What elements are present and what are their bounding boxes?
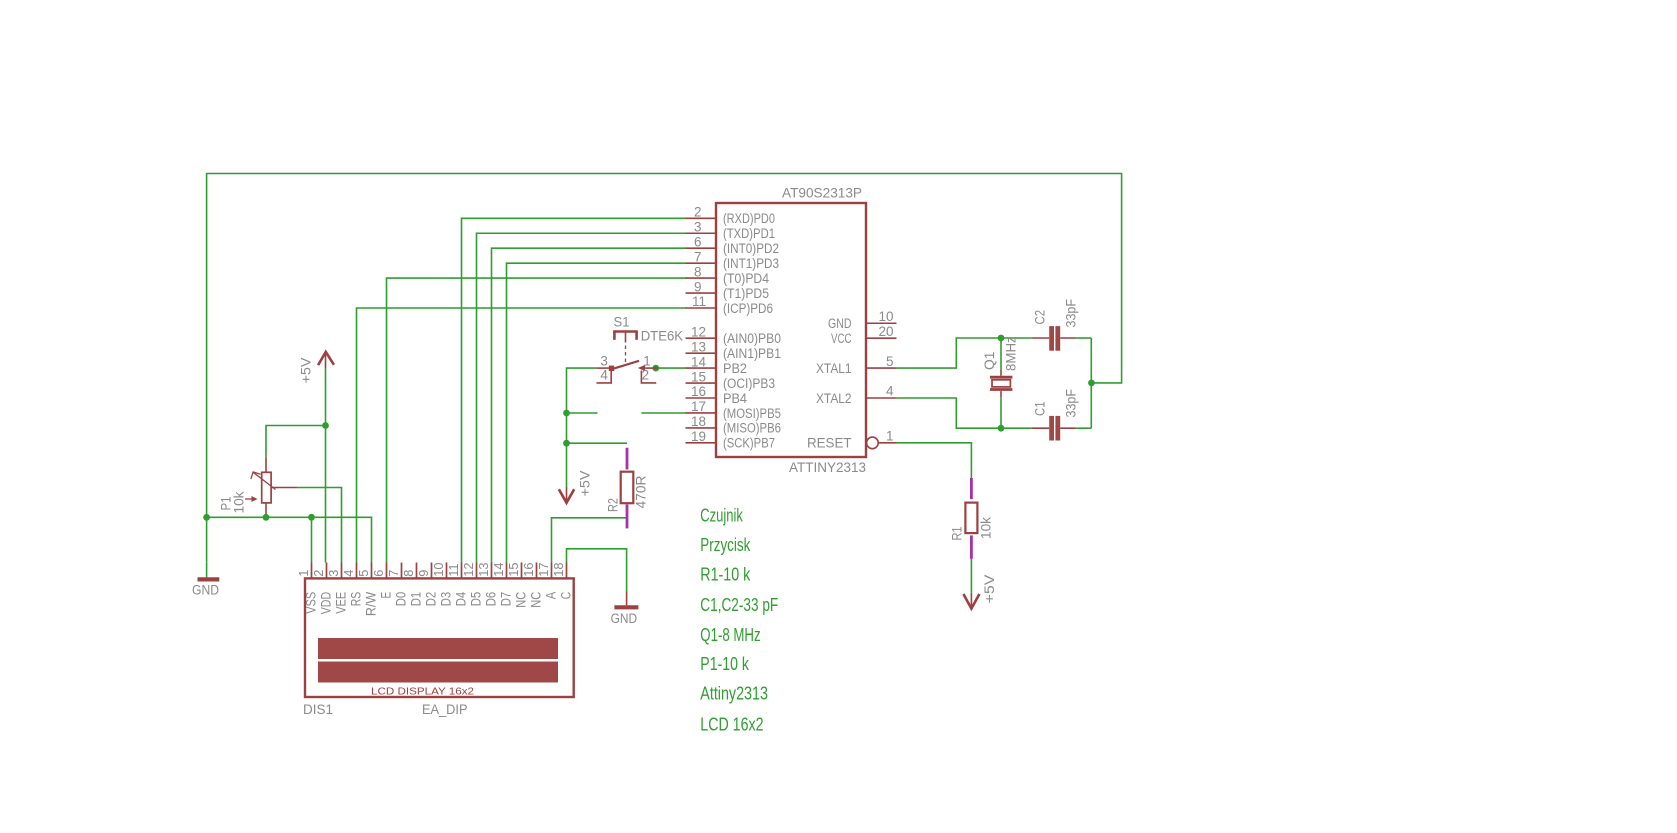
svg-text:D0: D0 [393, 592, 408, 607]
svg-text:14: 14 [691, 354, 707, 369]
pin 19 (SCK)PB7 lead + number + name [686, 442, 716, 444]
crystal Q1 8MHz [1000, 370, 1002, 376]
wire IC pin 7 to LCD connector x=506.5 [507, 263, 687, 562]
LCD pin 11 D4 lead + number + name [461, 563, 463, 579]
LCD pin 9 D2 lead + number + name [431, 563, 433, 579]
svg-text:2: 2 [694, 205, 702, 220]
svg-text:DTE6K: DTE6K [641, 329, 683, 344]
svg-text:33pF: 33pF [1064, 299, 1079, 328]
svg-text:19: 19 [691, 429, 706, 444]
svg-text:1: 1 [643, 354, 651, 369]
wire row17 left segment [567, 412, 598, 414]
LCD pin 1 VSS lead + number + name [311, 563, 313, 579]
pin 16 PB4 lead + number + name [686, 397, 716, 399]
svg-text:20: 20 [878, 324, 893, 339]
svg-text:3: 3 [326, 570, 341, 577]
svg-text:D6: D6 [483, 592, 498, 607]
LCD pin 7 D0 lead + number + name [401, 563, 403, 579]
svg-text:C1: C1 [1033, 402, 1048, 417]
wire Q1 top lead green [1000, 338, 1002, 370]
svg-text:10: 10 [878, 309, 893, 324]
svg-text:+5V: +5V [982, 575, 997, 604]
junction GND/VSS dots [203, 514, 210, 521]
svg-text:GND: GND [192, 583, 219, 598]
svg-text:17: 17 [691, 399, 706, 414]
svg-text:XTAL1: XTAL1 [816, 361, 852, 376]
P1 wiper lead [271, 487, 297, 489]
LCD pin 18 C lead + number + name [566, 563, 568, 579]
wire XTAL1 (pin5) to crystal top node [897, 338, 1002, 368]
svg-text:10k: 10k [979, 517, 994, 539]
svg-text:4: 4 [886, 384, 894, 399]
svg-text:VSS: VSS [303, 592, 318, 614]
pin 17 (MOSI)PB5 lead + number + name [686, 412, 716, 414]
wire PB2 (pin14) to switch S1 pin1 [657, 367, 687, 369]
LCD pin 2 VDD lead + number + name [326, 563, 328, 579]
svg-text:R2: R2 [606, 498, 621, 512]
wire IC pin 11 to LCD connector x=356.5 [357, 308, 687, 563]
pin 13 (AIN1)PB1 lead + number + name [686, 352, 716, 354]
pin 9 (T1)PD5 lead + number + name [686, 292, 716, 294]
svg-text:2: 2 [311, 570, 326, 577]
svg-text:11: 11 [446, 564, 461, 577]
svg-text:(AIN1)PB1: (AIN1)PB1 [723, 346, 781, 361]
ground symbol left [206, 576, 208, 579]
svg-text:GND: GND [611, 611, 638, 626]
wire caps right vertical [1090, 338, 1092, 428]
svg-text:13: 13 [476, 563, 491, 577]
LCD pin 6 E lead + number + name [386, 563, 388, 579]
junction at S1 pin1 [652, 365, 659, 372]
svg-text:5: 5 [886, 354, 894, 369]
svg-text:PB4: PB4 [723, 391, 747, 406]
LCD pin 4 RS lead + number + name [356, 563, 358, 579]
wire IC pin 2 to LCD connector x=461.5 [462, 218, 687, 562]
svg-text:Q1: Q1 [982, 352, 997, 370]
svg-text:4: 4 [341, 570, 356, 577]
junction switch net / R2 [563, 440, 570, 447]
svg-text:VCC: VCC [831, 331, 852, 346]
wire R2 bottom to LCD pin17 (A) [552, 518, 628, 563]
svg-text:6: 6 [371, 570, 386, 577]
wire row17 right segment to IC pin17 [641, 412, 686, 414]
switch S1 pin4 lead [597, 371, 612, 383]
svg-text:(AIN0)PB0: (AIN0)PB0 [723, 331, 781, 346]
svg-text:DIS1: DIS1 [303, 702, 333, 717]
svg-text:16: 16 [521, 563, 536, 577]
op IC U1 AT90S2313P/ATTINY2313 body [716, 203, 866, 457]
svg-text:(INT0)PD2: (INT0)PD2 [723, 241, 779, 256]
pin 3 (TXD)PD1 lead + number + name [686, 232, 716, 234]
junction switch net / row17 [563, 410, 570, 417]
svg-text:18: 18 [551, 563, 566, 577]
LCD pin 10 D3 lead + number + name [446, 563, 448, 579]
wire P1 wiper to VEE (LCD pin3) [297, 488, 342, 563]
svg-text:(TXD)PD1: (TXD)PD1 [723, 226, 775, 241]
wire switch S1 pin3 to left vertical [567, 368, 597, 487]
pin 11 (ICP)PD6 lead + number + name [686, 307, 716, 309]
svg-text:NC: NC [513, 592, 528, 608]
svg-text:14: 14 [491, 563, 506, 577]
svg-text:RS: RS [348, 592, 363, 607]
svg-text:11: 11 [692, 294, 706, 309]
svg-text:E: E [378, 592, 393, 599]
capacitor C1 33pF [1032, 427, 1049, 429]
junction XTAL1 node [998, 335, 1005, 342]
pin 12 (AIN0)PB0 lead + number + name [686, 337, 716, 339]
capacitor C2 33pF [1032, 337, 1049, 339]
svg-text:(T0)PD4: (T0)PD4 [723, 271, 769, 286]
pin 2 (RXD)PD0 lead + number + name [686, 217, 716, 219]
svg-text:18: 18 [691, 414, 706, 429]
svg-text:8: 8 [401, 570, 416, 577]
pin 6 (INT0)PD2 lead + number + name [686, 247, 716, 249]
junction +5V/VDD [322, 422, 329, 429]
switch S1 pin3 lead [596, 367, 609, 369]
pin 14 PB2 lead + number + name [686, 367, 716, 369]
resistor R1 10k [970, 478, 973, 499]
switch S1 pin2 lead [641, 371, 656, 383]
svg-text:12: 12 [461, 563, 476, 577]
wire C2 right to right vertical [1076, 337, 1091, 339]
wire Q1 bottom lead green [1000, 397, 1002, 428]
LCD pin 15 NC lead + number + name [521, 563, 523, 579]
LCD pin 12 D5 lead + number + name [476, 563, 478, 579]
svg-text:(OCI)PB3: (OCI)PB3 [723, 376, 775, 391]
svg-text:13: 13 [691, 339, 706, 354]
wire R1 bottom to +5V arrow [970, 559, 972, 593]
svg-text:D2: D2 [423, 592, 438, 607]
svg-text:(MISO)PB6: (MISO)PB6 [723, 421, 781, 436]
svg-text:PB2: PB2 [723, 361, 747, 376]
pin 7 (INT1)PD3 lead + number + name [686, 262, 716, 264]
svg-text:A: A [543, 592, 558, 600]
switch S1 contacts [609, 366, 614, 371]
svg-text:(RXD)PD0: (RXD)PD0 [723, 211, 775, 226]
svg-text:(INT1)PD3: (INT1)PD3 [723, 256, 779, 271]
svg-text:XTAL2: XTAL2 [816, 391, 852, 406]
svg-text:GND: GND [828, 316, 852, 331]
svg-text:8: 8 [694, 264, 702, 279]
LCD pin 8 D1 lead + number + name [416, 563, 418, 579]
svg-text:9: 9 [694, 279, 702, 294]
svg-text:7: 7 [694, 249, 702, 264]
switch S1 DTE6K button symbol [613, 330, 638, 333]
LCD pin 14 D7 lead + number + name [506, 563, 508, 579]
svg-text:+5V: +5V [299, 358, 314, 384]
svg-text:VDD: VDD [318, 592, 333, 615]
svg-text:D7: D7 [498, 592, 513, 607]
+5V supply arrow (down) at R1 [970, 593, 972, 607]
svg-text:16: 16 [691, 384, 706, 399]
svg-text:7: 7 [386, 570, 401, 577]
wire GND horizontal to VSS and R/W [207, 517, 372, 562]
svg-text:15: 15 [506, 563, 521, 577]
wire P1 bottom to GND [265, 514, 267, 517]
junction caps-GND [1088, 380, 1095, 387]
svg-text:AT90S2313P: AT90S2313P [782, 186, 862, 201]
svg-text:1: 1 [886, 429, 894, 444]
svg-text:C: C [558, 592, 573, 600]
svg-text:3: 3 [600, 354, 608, 369]
switch S1 pin1 lead [645, 367, 657, 369]
resistor P1 potentiometer body [265, 458, 267, 472]
wire crystal top node to C2 [1001, 337, 1032, 339]
+5V supply arrow (down) at switch net [566, 487, 568, 501]
pin 8 (T0)PD4 lead + number + name [686, 277, 716, 279]
LCD pin 16 NC lead + number + name [536, 563, 538, 579]
pin 5 XTAL1 lead + number + name [866, 367, 897, 369]
svg-text:1: 1 [296, 570, 311, 577]
wire LCD pin18 (C) to GND symbol [567, 549, 627, 592]
resistor R2 470R [626, 448, 629, 470]
pin 1 RESET lead + number + name [867, 437, 879, 449]
P1 wiper arrow [254, 473, 276, 490]
svg-text:12: 12 [691, 324, 706, 339]
P1 adjust arrow [245, 498, 255, 500]
svg-text:Attiny2313: Attiny2313 [700, 683, 768, 703]
svg-text:(ICP)PD6: (ICP)PD6 [723, 301, 773, 316]
svg-text:9: 9 [416, 570, 431, 577]
pin 4 XTAL2 lead + number + name [866, 397, 897, 399]
pin 18 (MISO)PB6 lead + number + name [686, 427, 716, 429]
wire IC pin 3 to LCD connector x=476.5 [477, 233, 687, 562]
svg-text:ATTINY2313: ATTINY2313 [789, 460, 866, 475]
wire GND net: left rail, top rail, right drop to caps junction [207, 174, 1122, 563]
svg-text:D4: D4 [453, 591, 468, 606]
wire +5V net: arrow stem to VDD (LCD pin2) [325, 368, 327, 562]
svg-text:17: 17 [536, 563, 551, 577]
wire RESET (pin1) to R1 [897, 443, 972, 478]
svg-text:2: 2 [642, 367, 650, 382]
svg-text:(T1)PD5: (T1)PD5 [723, 286, 769, 301]
LCD pin 3 VEE lead + number + name [341, 563, 343, 579]
LCD display bar row 2 [318, 662, 558, 683]
svg-text:(MOSI)PB5: (MOSI)PB5 [723, 406, 781, 421]
svg-text:(SCK)PB7: (SCK)PB7 [723, 436, 775, 451]
LCD display bar row 1 [318, 638, 558, 659]
svg-text:S1: S1 [614, 315, 630, 330]
svg-text:3: 3 [694, 219, 702, 234]
svg-text:5: 5 [356, 570, 371, 577]
svg-text:8MHz: 8MHz [1004, 336, 1019, 371]
+5V supply arrow (up) near P1 [325, 353, 327, 369]
svg-text:10k: 10k [232, 491, 247, 513]
wire left GND stub (green part) [206, 562, 208, 577]
wire +5V branch to P1 top [266, 426, 326, 459]
junction XTAL2 node [998, 425, 1005, 432]
svg-text:D5: D5 [468, 592, 483, 607]
switch S1 actuator dashed link [625, 346, 627, 363]
LCD pin 17 A lead + number + name [551, 563, 553, 579]
svg-text:D1: D1 [408, 592, 423, 607]
svg-text:LCD DISPLAY 16x2: LCD DISPLAY 16x2 [371, 685, 474, 697]
svg-text:6: 6 [694, 234, 702, 249]
ground symbol right of LCD [626, 592, 628, 606]
svg-text:R1-10 k: R1-10 k [700, 564, 751, 584]
svg-text:470R: 470R [634, 475, 649, 508]
svg-text:Przycisk: Przycisk [700, 535, 751, 555]
svg-text:4: 4 [600, 367, 608, 382]
svg-text:Q1-8 MHz: Q1-8 MHz [700, 625, 760, 645]
wire VSS riser LCD pin1 [311, 517, 313, 562]
svg-text:15: 15 [691, 369, 706, 384]
svg-text:VEE: VEE [333, 592, 348, 614]
svg-text:D3: D3 [438, 592, 453, 607]
wire crystal bottom node to C1 [1001, 427, 1032, 429]
svg-text:R/W: R/W [363, 592, 378, 617]
wire R2 top to switch net [567, 442, 628, 444]
svg-text:NC: NC [528, 592, 543, 608]
wire IC pin 8 to LCD connector x=386.5 [387, 278, 687, 562]
wire C1 right to right vertical [1076, 427, 1091, 429]
svg-text:P1-10 k: P1-10 k [700, 654, 749, 674]
svg-text:33pF: 33pF [1064, 389, 1079, 418]
LCD display DIS1 EA_DIP body [305, 578, 574, 697]
wire IC pin 6 to LCD connector x=491.5 [492, 248, 687, 562]
pin 10 GND lead + number + name [866, 322, 897, 324]
LCD pin 5 R/W lead + number + name [371, 563, 373, 579]
svg-text:10: 10 [431, 563, 446, 577]
svg-text:+5V: +5V [578, 471, 593, 497]
svg-text:R1: R1 [950, 527, 965, 541]
LCD pin 13 D6 lead + number + name [491, 563, 493, 579]
svg-text:EA_DIP: EA_DIP [422, 702, 468, 717]
svg-text:Czujnik: Czujnik [700, 506, 743, 526]
wire XTAL2 (pin4) to crystal bottom node [897, 398, 1002, 428]
svg-text:LCD 16x2: LCD 16x2 [700, 714, 763, 734]
pin 20 VCC lead + number + name [866, 337, 897, 339]
svg-text:RESET: RESET [807, 436, 852, 451]
pin 15 (OCI)PB3 lead + number + name [686, 382, 716, 384]
svg-text:C2: C2 [1033, 310, 1048, 325]
svg-text:C1,C2-33 pF: C1,C2-33 pF [700, 595, 778, 615]
